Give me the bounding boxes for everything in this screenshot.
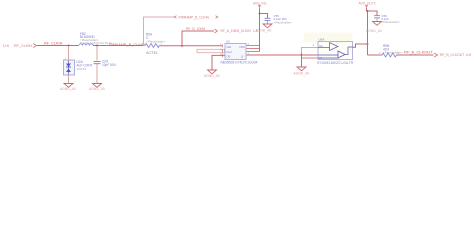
svg-text:RF_A_100M_CLKIN: RF_A_100M_CLKIN — [221, 29, 252, 33]
ground AGND under C2A — [93, 84, 102, 88]
wire after FB2 — [93, 45, 144, 47]
off-page connector 100M — [215, 29, 218, 33]
svg-text:AGND_A0: AGND_A0 — [366, 29, 382, 33]
junction at C2A — [96, 45, 98, 47]
svg-text:U5: U5 — [226, 40, 230, 44]
svg-text:U5A: U5A — [319, 38, 325, 42]
svg-text:RF_B_CLKOUT: RF_B_CLKOUT — [404, 49, 433, 54]
svg-text:NB3N502-D74LVC1GU04: NB3N502-D74LVC1GU04 — [221, 61, 258, 65]
wire U5 VDD pins to AVD rail — [247, 46, 260, 52]
svg-text:AGND_A0: AGND_A0 — [60, 87, 76, 91]
diode D2A ESD — [64, 57, 75, 76]
wire 100M riser — [182, 31, 214, 46]
svg-text:AVD_IN2: AVD_IN2 — [253, 1, 267, 5]
capacitor C55 labels — [274, 14, 293, 24]
junction opamp input tap — [301, 54, 303, 56]
svg-text:ClkI: ClkI — [227, 45, 232, 49]
svg-text:U.fl: U.fl — [3, 44, 9, 48]
wire opamp plus input — [302, 48, 319, 54]
svg-text:PWRAMP_B_CLKIN: PWRAMP_B_CLKIN — [109, 42, 145, 47]
svg-text:PWRAMP_B_CLKIN: PWRAMP_B_CLKIN — [179, 15, 210, 19]
wire D2 bottom lead — [68, 75, 70, 84]
capacitor C2A — [94, 62, 101, 64]
svg-text:RF_B_CLKOUT: RF_B_CLKOUT — [440, 53, 464, 57]
ground AGND under D2 — [64, 84, 73, 88]
wire C2A bottom lead — [96, 64, 98, 84]
inductor FB2 labels — [80, 32, 113, 45]
port rectangle into U5 pin2 — [197, 49, 225, 52]
svg-text:AVD_OUT2: AVD_OUT2 — [359, 1, 376, 5]
wire C2A top lead — [96, 46, 98, 61]
wire D2 top lead — [68, 46, 70, 61]
svg-text:10pF 50V: 10pF 50V — [102, 63, 117, 67]
svg-text:SY100EL16VZC-LGA-TR: SY100EL16VZC-LGA-TR — [317, 61, 354, 65]
svg-text:RF_CLKIN: RF_CLKIN — [14, 44, 32, 48]
svg-text:<Placeholder>: <Placeholder> — [382, 20, 401, 24]
IC U5 — [220, 40, 250, 60]
diode D2A value labels — [77, 60, 93, 71]
wire input y45.5 — [37, 45, 79, 47]
resistor R5A — [145, 44, 159, 48]
svg-text:Gnd: Gnd — [227, 50, 233, 54]
wire U5 pin3 to ground — [212, 55, 225, 70]
off-page connector PWRAMP — [174, 16, 176, 19]
wire opamp minus input — [302, 57, 319, 59]
svg-text:IN+: IN+ — [319, 44, 324, 48]
ground AGND under U5 pin3 — [208, 70, 217, 74]
wire to C56 — [368, 11, 378, 15]
wire opamp output bridge — [353, 44, 368, 47]
off-page connector PWRAMP end — [216, 16, 218, 19]
junction 100M tap — [181, 45, 183, 47]
svg-text:SOT23: SOT23 — [77, 67, 87, 71]
wire to PWRAMP tap (light) — [144, 17, 175, 46]
wire R5A to U5 — [160, 45, 223, 47]
capacitor C2A labels — [102, 59, 117, 66]
svg-text:ACTEL: ACTEL — [146, 51, 158, 55]
svg-text:Q: Q — [241, 55, 243, 59]
resistor R5B labels — [383, 44, 403, 54]
svg-text:U.fl: U.fl — [466, 53, 471, 57]
wire C55 bottom lead — [267, 21, 269, 25]
svg-text:RF_B_100M: RF_B_100M — [186, 27, 205, 31]
svg-text:OE: OE — [227, 55, 231, 59]
wire U5 output to opamp — [247, 54, 318, 56]
wire R5B to connector — [397, 54, 434, 56]
wire opamp input tap to ground — [301, 53, 303, 67]
svg-text:AGND_A0: AGND_A0 — [294, 71, 310, 75]
svg-text:RF_CLKIN: RF_CLKIN — [44, 41, 63, 45]
capacitor C56 labels — [382, 14, 401, 24]
svg-text:AGND_A0: AGND_A0 — [256, 29, 272, 33]
svg-text:IN-: IN- — [319, 56, 323, 60]
ground AGND under opamp input — [297, 67, 306, 71]
wire output y55 — [368, 54, 383, 56]
inductor FB2 — [79, 44, 93, 46]
ground AGND under C55 — [263, 24, 272, 28]
resistor R5B — [382, 53, 396, 57]
ground AGND under C56 — [373, 22, 382, 26]
svg-text:AGND_A0: AGND_A0 — [204, 74, 220, 78]
svg-text:<Placeholder>: <Placeholder> — [274, 20, 293, 24]
wire output rail — [367, 9, 368, 56]
pin tick U5 pin1 — [222, 44, 224, 47]
off-page connector input — [33, 44, 37, 48]
off-page connector output — [434, 53, 438, 57]
junction AVD_IN2 cap tap — [259, 13, 261, 15]
op-amp U5A — [304, 33, 353, 60]
junction output rail — [367, 43, 369, 45]
wire C56 bottom lead — [376, 18, 378, 22]
node J1 U.FL input annotation — [3, 44, 32, 48]
wire to C55 — [260, 14, 268, 19]
svg-text:AGND_A0: AGND_A0 — [89, 87, 105, 91]
svg-text:VDD: VDD — [239, 45, 245, 49]
pin tick U5 pin3 — [222, 54, 224, 57]
capacitor C55 — [265, 18, 271, 20]
junction C56 tap — [367, 10, 369, 12]
capacitor C56 — [374, 16, 380, 18]
wire AVD_IN2 rail — [259, 9, 261, 52]
junction at D2 — [68, 45, 70, 47]
pin tick U5 pin2 — [222, 49, 224, 52]
resistor R5A labels — [146, 32, 166, 43]
